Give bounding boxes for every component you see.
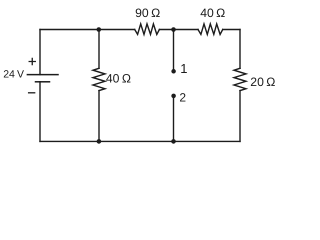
svg-text:40 Ω: 40 Ω xyxy=(200,6,225,20)
wire 40-ohm branch lower lead xyxy=(98,91,100,142)
node junction dot bottom of 40-ohm branch xyxy=(97,139,102,144)
battery V1 short plate xyxy=(35,81,49,83)
wire left edge upper to battery xyxy=(39,29,41,74)
wire right edge lower xyxy=(239,91,241,142)
resistor R1 90-ohm zigzag xyxy=(135,24,160,35)
node junction dot top of terminal branch xyxy=(171,27,176,32)
svg-text:20 Ω: 20 Ω xyxy=(250,75,275,89)
svg-text:1: 1 xyxy=(180,61,187,76)
node terminal 2 dot xyxy=(171,94,176,99)
wire terminal branch upper xyxy=(173,30,175,72)
wire top between 90-ohm and 40-ohm resistors xyxy=(159,29,198,31)
resistor R2 40-ohm top zigzag xyxy=(198,24,223,35)
wire terminal branch lower xyxy=(172,96,174,141)
resistor R4 20-ohm vertical zigzag xyxy=(234,68,246,90)
resistor R3 40-ohm vertical zigzag xyxy=(93,68,105,90)
label + polarity xyxy=(29,58,35,64)
wire left edge below battery xyxy=(39,82,41,142)
node terminal 1 dot xyxy=(171,69,176,74)
node junction dot top of 40-ohm branch xyxy=(97,27,102,32)
node junction dot bottom of terminal branch xyxy=(171,139,176,144)
wire top right to corner xyxy=(223,29,240,31)
label - polarity xyxy=(29,92,35,94)
wire right edge upper xyxy=(239,30,241,69)
svg-text:24 V: 24 V xyxy=(3,69,24,81)
svg-text:40 Ω: 40 Ω xyxy=(106,71,131,85)
wire bottom xyxy=(40,140,240,142)
battery V1 long plate xyxy=(27,74,58,76)
wire top from left corner to 90-ohm resistor xyxy=(40,28,135,30)
svg-text:90 Ω: 90 Ω xyxy=(135,6,160,20)
wire 40-ohm branch upper lead xyxy=(98,29,100,68)
svg-text:2: 2 xyxy=(179,90,186,104)
